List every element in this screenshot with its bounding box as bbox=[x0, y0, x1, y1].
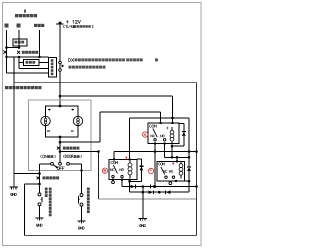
wire white/black stub bbox=[39, 30, 41, 57]
relay C NC stub circle bbox=[169, 182, 172, 185]
relay A bottom pin NC bbox=[154, 142, 156, 144]
junction relay B coil pin flyback bbox=[128, 180, 131, 183]
outer border frame bbox=[3, 3, 202, 246]
diode D1 on bus1 bbox=[131, 185, 135, 189]
junction NC drop on bus y151.5 bbox=[154, 150, 157, 153]
wire jog horizontal y112 to relay A bbox=[100, 111, 161, 113]
relay B contact NO circle bbox=[121, 175, 123, 177]
wire courtesy switch to ground bbox=[81, 206, 83, 220]
wire bottom loop left bbox=[25, 183, 40, 185]
connector pin circle upper bbox=[59, 61, 62, 64]
+12V tap symbol bar bbox=[56, 23, 63, 25]
relay C box bbox=[157, 162, 185, 182]
relay B bottom pin coil bbox=[129, 179, 131, 181]
wire relay C top pin stub bbox=[176, 157, 178, 161]
diode D2 on bus1 bbox=[150, 185, 152, 189]
ground GND relay bbox=[139, 217, 147, 219]
relay A contact NC circle bbox=[154, 139, 156, 141]
relay A label NC bbox=[151, 135, 153, 137]
connect box つなぐ 2 bbox=[24, 60, 40, 66]
relay C flyback diode wire lower bbox=[188, 171, 190, 192]
relay A flyback vertical bbox=[183, 123, 185, 146]
wire left ground vertical bbox=[13, 83, 15, 187]
wire stub to connect box 2 bbox=[19, 62, 24, 64]
wire relay A NO drop bbox=[164, 143, 166, 157]
relay B contact NC circle bbox=[112, 175, 114, 177]
relay C flyback diode bbox=[187, 166, 191, 168]
relay A label NO bbox=[161, 135, 163, 137]
+12V tap symbol cap bbox=[59, 22, 62, 24]
switch lever bbox=[53, 165, 57, 168]
polarity + of L1 bbox=[48, 109, 51, 111]
lamp L2 filament bbox=[77, 116, 79, 125]
wire connector top pin bbox=[39, 61, 49, 63]
relay C designator circle C bbox=[148, 168, 153, 173]
connector pin arrow bbox=[62, 64, 65, 67]
relay B top pin 2 bbox=[129, 158, 131, 160]
relay B top pin 1 bbox=[113, 158, 115, 160]
switch label (ON位置) bbox=[40, 155, 43, 158]
wire DOOR contact right bbox=[69, 163, 81, 165]
ground GND door switch1 bbox=[35, 217, 43, 219]
wire relay B coil pin drop bbox=[129, 181, 131, 192]
relay B label COM bbox=[111, 161, 113, 164]
label +12V bbox=[66, 21, 68, 24]
label ×セットする mid bbox=[57, 147, 60, 150]
room lamp unit gray box bbox=[28, 100, 91, 170]
polarity + of L2 bbox=[72, 109, 75, 111]
switch label (DOOR位置) bbox=[63, 155, 66, 158]
label 赤 (red wire) bbox=[17, 24, 21, 28]
wire lamp negative down bbox=[59, 137, 61, 164]
relay frame left edge bbox=[98, 152, 100, 200]
junction relay C feed y157.3 bbox=[188, 156, 191, 159]
diode D4 on bus2 bbox=[166, 190, 170, 194]
wire relay B COM riser bbox=[113, 152, 115, 160]
switch common contact bbox=[59, 162, 62, 165]
wire bottom loop down bbox=[24, 184, 26, 236]
wire drop to long rear wire bbox=[13, 57, 15, 83]
relay B flyback top wire bbox=[137, 158, 141, 160]
relay C contact NC circle bbox=[165, 176, 167, 178]
door switch1 contact bottom bbox=[38, 203, 41, 206]
label DX リアのルームランプ付きの車輌 line bbox=[69, 59, 71, 62]
wire +12V branch to relays bbox=[60, 95, 173, 97]
wire blue branch down bbox=[6, 57, 8, 73]
lamp L1 filament bbox=[45, 116, 47, 125]
relay A top pin 1 bbox=[160, 122, 162, 124]
junction bus1 ground drop bbox=[142, 185, 145, 188]
relay B lever bbox=[113, 165, 117, 174]
wire ON drop to door switch 1 bbox=[39, 164, 41, 193]
wire tee to ON drop bbox=[14, 173, 40, 175]
junction coil drop y157.3 bbox=[171, 156, 174, 159]
junction red y57 bbox=[18, 56, 20, 58]
relay A flyback diode bbox=[182, 131, 186, 133]
relay A flyback bottom wire bbox=[172, 145, 184, 147]
junction ON drop y173.5 bbox=[38, 172, 41, 175]
connector コネクター box bbox=[49, 58, 57, 78]
relay A label COM bbox=[150, 125, 152, 128]
junction relay feed y117.9 bbox=[171, 117, 174, 120]
relay C label NO bbox=[169, 170, 171, 172]
wire +12V down to relay A coil bbox=[172, 96, 174, 123]
relay C COM pin square bbox=[175, 180, 177, 182]
wire blue below cut bbox=[6, 48, 8, 58]
door switch1 contact top bbox=[38, 193, 41, 196]
junction bus2 ground drop bbox=[142, 191, 145, 194]
wire relay A NC drop bbox=[154, 143, 156, 186]
junction long bus y151.5 bbox=[59, 150, 62, 153]
relay B flyback bottom wire bbox=[130, 180, 142, 182]
diode D3 on bus2 bbox=[149, 190, 153, 194]
junction +12V branch y96 bbox=[59, 95, 62, 98]
relay B label NC bbox=[110, 169, 112, 171]
courtesy switch plunger bbox=[77, 196, 79, 203]
junction pin stub y157.3 bbox=[176, 156, 179, 159]
relay A coil bbox=[171, 127, 173, 131]
relay A contact NO circle bbox=[163, 139, 165, 141]
relay B coil bbox=[129, 161, 131, 164]
junction bus2 mid bbox=[158, 191, 161, 194]
junction right wire y151.5 bbox=[195, 150, 198, 153]
wire jog horizontal y142 bbox=[60, 141, 100, 143]
label ×セットする lower bbox=[37, 176, 40, 179]
junction DOOR drop at unit box edge bbox=[80, 169, 82, 171]
wire blue stub bbox=[6, 30, 8, 48]
connect box つなぐ 1 bbox=[13, 39, 27, 46]
main +12V vertical wire bbox=[59, 24, 61, 106]
long bus wire lamp segment bbox=[60, 151, 99, 153]
wire ground drop bbox=[142, 187, 144, 219]
wire DOOR drop to courtesy switch bbox=[81, 164, 83, 194]
wire relay C coil feed drop bbox=[188, 118, 190, 157]
long right vertical wire bbox=[196, 83, 198, 236]
courtesy switch contact top bbox=[80, 194, 83, 197]
door switch1 plunger bbox=[41, 197, 43, 203]
relay B flyback vertical bbox=[140, 159, 142, 181]
wire node row y157.3 bbox=[165, 156, 189, 158]
wire relay A input drop bbox=[160, 112, 162, 123]
diode bus2 wire bbox=[130, 191, 189, 193]
wire door switch1 to ground bbox=[39, 206, 41, 218]
wire coil feed horizontal y117.9 bbox=[130, 117, 189, 119]
long wire to rear (top run) bbox=[14, 82, 197, 84]
note mark above header bbox=[24, 10, 26, 13]
ground GND courtesy switch bbox=[77, 220, 85, 222]
junction feed drop on long bus bbox=[188, 150, 191, 153]
junction red-bar bbox=[18, 46, 21, 49]
relay A bottom pin coil bbox=[171, 142, 173, 144]
wire jog vertical x100 bbox=[99, 112, 101, 142]
junction bottom loop branch bbox=[38, 183, 41, 186]
label カーテシスイッチ column bbox=[87, 188, 90, 191]
label 白/黒 (white/black wire) bbox=[34, 24, 37, 27]
wire red stub bbox=[18, 30, 20, 48]
relay A flyback top wire bbox=[179, 122, 184, 124]
relay C coil bbox=[180, 162, 182, 165]
long bus wire relay segment bbox=[114, 151, 197, 153]
junction bus1 NC drop bbox=[154, 185, 157, 188]
relay B flyback diode bbox=[139, 165, 143, 167]
label フロントドアスイッチ column bbox=[49, 188, 52, 191]
junction jog branch y142 bbox=[59, 141, 62, 144]
junction lamp bottom rail bbox=[59, 136, 62, 139]
relay C coil polarity + bbox=[172, 162, 174, 164]
junction bus1 right wire bbox=[195, 185, 198, 188]
long bottom wire bbox=[25, 235, 197, 237]
relay B label NO bbox=[120, 169, 122, 171]
junction lamp top rail bbox=[59, 105, 62, 108]
relay C label NC bbox=[163, 170, 165, 172]
switch ON contact bbox=[51, 162, 54, 165]
wire horizontal node row y57 bbox=[7, 56, 49, 58]
relay B box bbox=[109, 159, 137, 179]
relay A coil polarity + bbox=[166, 127, 168, 129]
header text 車速ハーネス bbox=[15, 14, 18, 17]
lamp L2 bulb circle bbox=[73, 116, 82, 125]
relay C contact NO circle bbox=[172, 176, 174, 178]
relay C lever bbox=[161, 167, 165, 175]
ground GND left bbox=[10, 186, 18, 188]
junction frame top-left bbox=[97, 150, 100, 153]
wire relay A coil drop bbox=[171, 146, 173, 157]
wire ON contact left bbox=[40, 163, 51, 165]
relay A box bbox=[148, 123, 179, 143]
relay A bottom pin NO bbox=[164, 142, 166, 144]
relay A top pin 2 bbox=[172, 122, 174, 124]
wire red branch down bbox=[18, 57, 20, 69]
relay C top pin square bbox=[176, 160, 178, 162]
label 青 (blue wire) bbox=[5, 24, 9, 28]
relay B coil polarity + bbox=[125, 157, 127, 159]
relay B NC stub circle bbox=[112, 181, 115, 184]
label OFF bbox=[57, 167, 59, 170]
courtesy switch contact bottom bbox=[80, 203, 83, 206]
polarity - of L2 bbox=[71, 130, 74, 132]
junction blue-bar bbox=[5, 46, 8, 49]
connector pin circle lower bbox=[59, 69, 62, 72]
switch DOOR contact bbox=[67, 162, 70, 165]
wire to connector bottom pin bbox=[7, 72, 49, 74]
label ×セットする bbox=[17, 51, 20, 54]
label フロントルームスイッチ line bbox=[69, 66, 72, 69]
relay C flyback diode wire upper bbox=[188, 157, 190, 167]
junction relay A coil pin flyback bbox=[171, 145, 174, 148]
junction blue y57 bbox=[5, 56, 7, 58]
junction relay C pin wire bbox=[188, 180, 191, 183]
lamp L1 bulb circle bbox=[41, 116, 50, 125]
wire to connector middle pin bbox=[19, 68, 49, 70]
text 実行をリアまで線を伸す bbox=[4, 85, 44, 90]
polarity - of L1 bbox=[47, 130, 50, 132]
joining bar blue-red bbox=[7, 47, 20, 49]
switch lever pivot bbox=[56, 166, 58, 168]
relay B bottom pin NC bbox=[112, 179, 114, 181]
lamp loop rectangle bbox=[46, 106, 79, 137]
relay A contact coil circle bbox=[171, 139, 173, 141]
junction white/black y57 bbox=[38, 56, 40, 58]
cut mark x on blue wire bbox=[3, 50, 6, 53]
wire relay C COM pin out bbox=[175, 180, 177, 182]
wire relay B coil feed riser bbox=[129, 118, 131, 159]
label ちなし column bbox=[45, 188, 48, 191]
relay B bottom pin NO bbox=[121, 179, 123, 181]
diode bus1 wire bbox=[122, 186, 197, 188]
label 5/6L相当(H)接続 bbox=[63, 25, 66, 28]
relay B designator circle B bbox=[102, 168, 107, 173]
relay A lever bbox=[153, 128, 157, 137]
relay C label COM bbox=[158, 163, 160, 165]
relay frame bottom edge bbox=[99, 198, 197, 200]
relay A designator circle A bbox=[143, 132, 148, 137]
wire relay B NO pin drop bbox=[121, 180, 123, 187]
